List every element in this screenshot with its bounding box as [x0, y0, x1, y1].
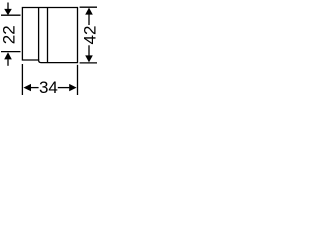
svg-text:22: 22 [0, 25, 19, 44]
dim 22 top arrow [4, 9, 12, 15]
dim 22 top leader line [7, 3, 9, 10]
dim 22 bottom extension tick [1, 51, 21, 53]
svg-text:34: 34 [39, 78, 58, 97]
inner edge line 2 [47, 8, 49, 63]
part outline [22, 8, 77, 63]
dim 42 line lower [88, 45, 90, 55]
dim 34 right arrow [69, 84, 76, 91]
dim 42 bottom extension tick [80, 62, 97, 64]
inner edge line 1 [38, 8, 40, 61]
svg-text:42: 42 [81, 26, 100, 45]
dim 22 bottom arrow [4, 52, 12, 59]
dim 34 line right segment [58, 87, 70, 89]
dim 34 right extension line [77, 65, 79, 95]
dim 34 left extension line [21, 64, 23, 95]
dim 42 line upper [88, 14, 90, 25]
dim 42 bottom arrow [85, 55, 93, 62]
dim 42 top arrow [85, 8, 93, 15]
dim 34 line left segment [31, 87, 39, 89]
dim 42 top extension tick [80, 6, 97, 8]
dim 22 bottom leader line [7, 59, 9, 66]
dim 22 top extension tick [1, 14, 21, 16]
dim 34 left arrow [23, 84, 31, 91]
